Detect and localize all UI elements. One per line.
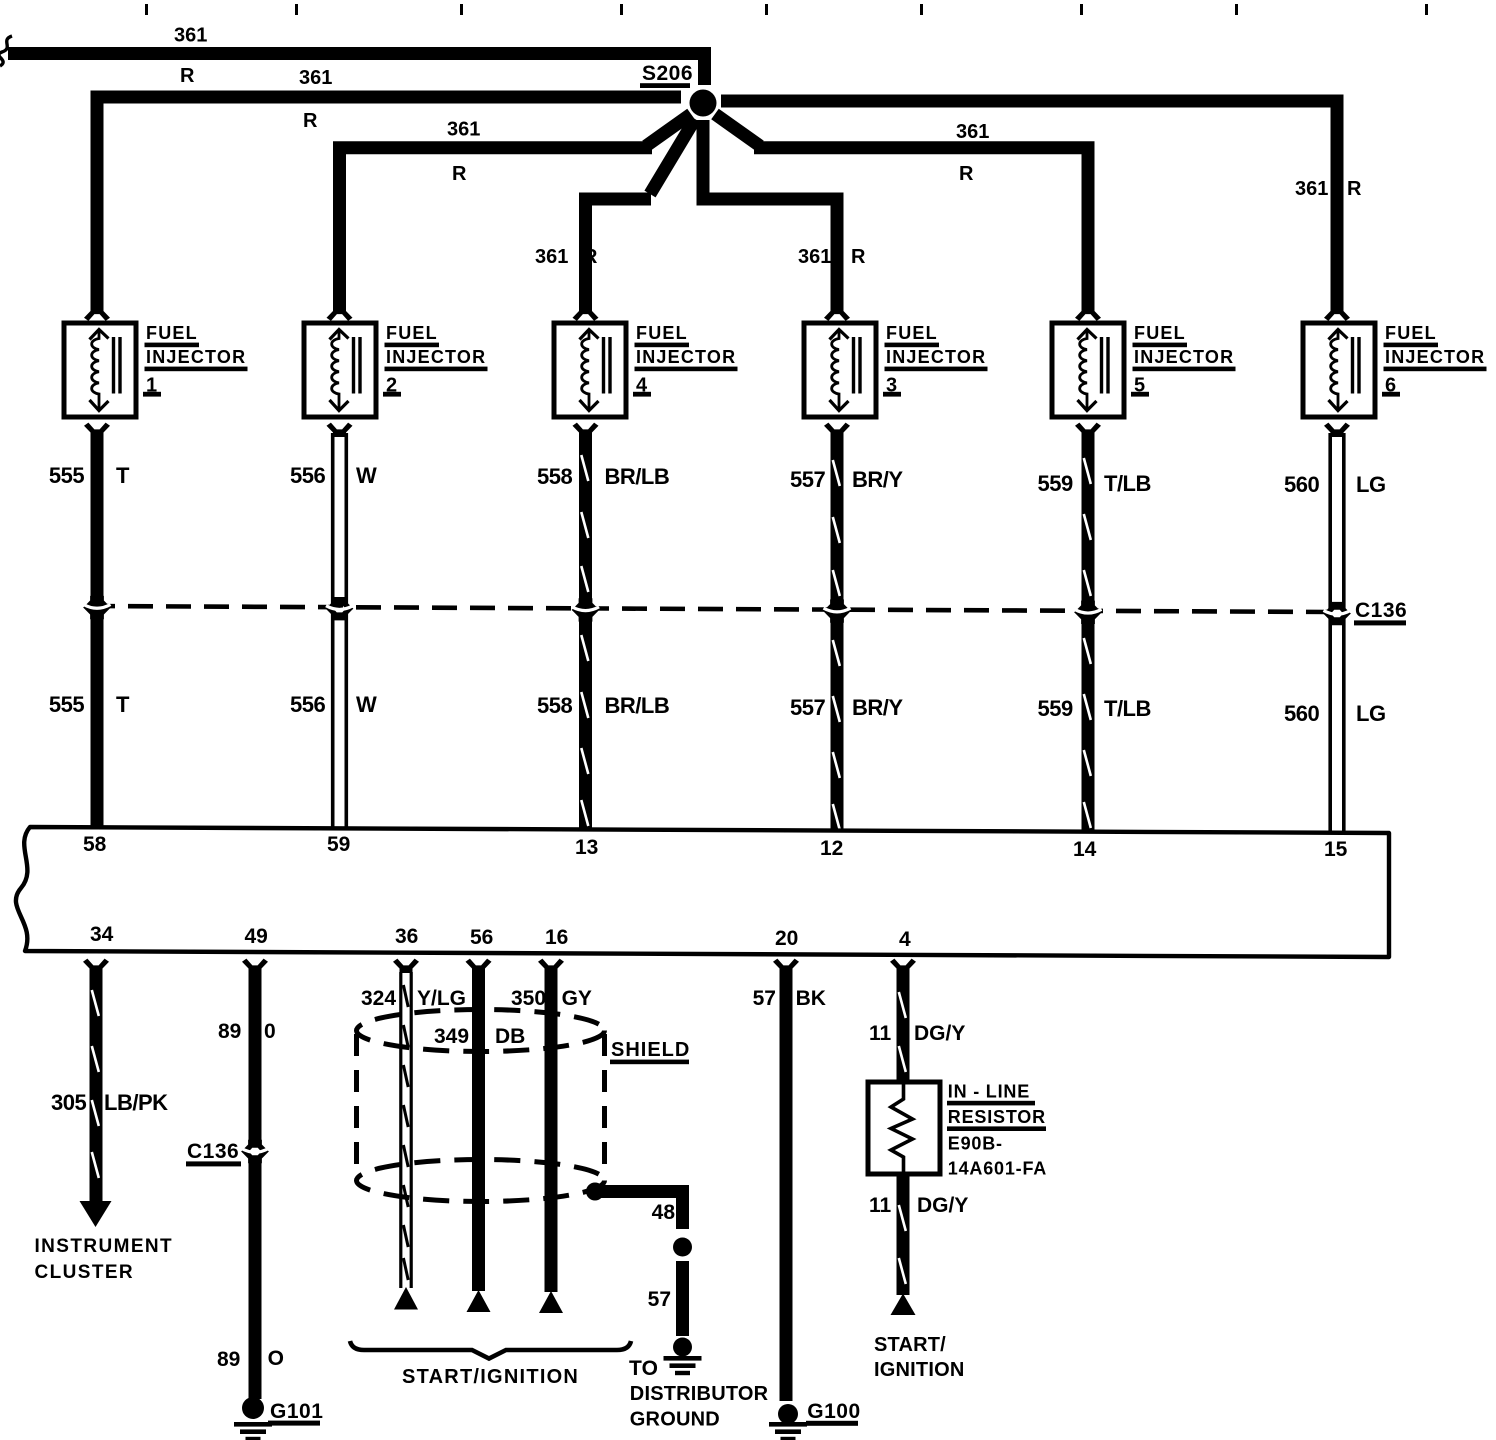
svg-text:361: 361	[299, 67, 332, 89]
fuel injector 4 (coil symbol U4)	[554, 323, 626, 417]
svg-text:16: 16	[545, 926, 568, 949]
brace under START/IGNITION wires	[350, 1341, 631, 1359]
connector bump C136 on wire 89	[241, 1140, 269, 1163]
svg-text:FUEL: FUEL	[1385, 323, 1437, 343]
svg-text:C136: C136	[1355, 599, 1407, 622]
svg-text:4: 4	[899, 928, 911, 951]
svg-text:E90B-: E90B-	[948, 1134, 1003, 1154]
svg-text:361: 361	[174, 25, 207, 47]
svg-text:58: 58	[83, 833, 107, 856]
svg-text:CLUSTER: CLUSTER	[35, 1262, 135, 1283]
svg-text:BK: BK	[796, 987, 826, 1010]
wire 556 W from injector 2 to pin 59	[333, 433, 347, 830]
svg-text:T: T	[116, 463, 130, 488]
wire 557 BR/Y from injector 3 to pin 12	[831, 433, 844, 831]
connector bump C136 on wire 559	[1074, 601, 1102, 624]
svg-text:O: O	[268, 1347, 284, 1370]
svg-text:57: 57	[648, 1288, 671, 1311]
connector fork on wire 57 BK (pin 20)	[773, 959, 799, 973]
svg-text:556: 556	[290, 463, 325, 488]
connector fork at top of fuel injector 4	[573, 307, 599, 321]
svg-text:15: 15	[1324, 838, 1348, 861]
svg-text:13: 13	[575, 836, 598, 859]
svg-text:558: 558	[537, 464, 572, 489]
wire 89 O upper segment	[249, 969, 262, 1145]
svg-text:GY: GY	[562, 987, 592, 1010]
svg-text:IN - LINE: IN - LINE	[948, 1082, 1030, 1102]
svg-text:305: 305	[51, 1090, 86, 1115]
svg-text:INSTRUMENT: INSTRUMENT	[35, 1236, 174, 1257]
svg-text:57: 57	[753, 987, 776, 1010]
svg-text:49: 49	[245, 925, 268, 948]
connector bump C136 on wire 557	[823, 599, 851, 622]
svg-text:557: 557	[790, 695, 825, 720]
svg-text:36: 36	[395, 925, 418, 948]
svg-text:555: 555	[49, 692, 84, 717]
svg-text:14: 14	[1073, 838, 1097, 861]
svg-text:C136: C136	[187, 1140, 239, 1163]
svg-text:11: 11	[869, 1194, 892, 1217]
ground dot distributor	[673, 1338, 692, 1357]
svg-text:48: 48	[652, 1201, 676, 1224]
connector fork on wire 350 (pin 16)	[538, 959, 564, 973]
svg-text:350: 350	[511, 987, 546, 1010]
connector bump C136 on wire 556	[326, 597, 354, 620]
svg-text:557: 557	[790, 467, 825, 492]
stripes on wire 11 upper	[899, 992, 906, 1018]
wire 361 branch to fuel injector 6	[721, 101, 1337, 312]
svg-text:BR/LB: BR/LB	[605, 464, 670, 489]
connector fork below fuel injector 4	[573, 423, 599, 437]
svg-text:FUEL: FUEL	[146, 323, 198, 343]
svg-text:DB: DB	[495, 1025, 525, 1048]
svg-text:34: 34	[90, 923, 114, 946]
svg-text:G101: G101	[270, 1400, 323, 1423]
connector fork below fuel injector 6	[1324, 423, 1350, 437]
torn-end squiggle on wire 361	[0, 36, 12, 66]
svg-text:G100: G100	[807, 1400, 860, 1423]
shield dashed cylinder (bottom ellipse)	[357, 1160, 605, 1202]
connector fork at top of fuel injector 2	[327, 307, 353, 321]
svg-text:INJECTOR: INJECTOR	[146, 347, 246, 367]
svg-text:R: R	[452, 163, 467, 185]
svg-text:W: W	[356, 692, 377, 717]
connector fork below fuel injector 1	[84, 423, 110, 437]
wire 361 diagonal splice leg to injector 5 branch	[715, 114, 760, 146]
underline SHIELD	[610, 1060, 689, 1065]
wire 350 GY	[545, 969, 558, 1292]
connector fork at top of fuel injector 5	[1075, 307, 1101, 321]
svg-text:LB/PK: LB/PK	[104, 1090, 168, 1115]
wire 560 LG from injector 6 to pin 15	[1330, 433, 1344, 833]
arrow terminal wire 324	[394, 1287, 418, 1310]
svg-text:BR/Y: BR/Y	[852, 695, 903, 720]
svg-text:IGNITION: IGNITION	[874, 1359, 965, 1381]
svg-text:DISTRIBUTOR: DISTRIBUTOR	[630, 1383, 769, 1405]
svg-text:TO: TO	[629, 1357, 658, 1380]
svg-text:555: 555	[49, 463, 84, 488]
svg-text:FUEL: FUEL	[1134, 323, 1186, 343]
wire 361 diagonal splice leg to injector 2 branch	[646, 114, 691, 146]
connector bump C136 on wire 558	[572, 598, 600, 621]
underline C136 (wire 89)	[186, 1161, 241, 1166]
stripes on wire 557	[833, 460, 840, 486]
svg-text:FUEL: FUEL	[386, 323, 438, 343]
connector fork at top of fuel injector 6	[1324, 307, 1350, 321]
wire 48 to distributor ground	[595, 1192, 683, 1230]
svg-text:LG: LG	[1356, 472, 1386, 497]
wire 361 diagonal splice leg to injector 4 branch	[650, 119, 695, 194]
connector fork on wire 305 (pin 34)	[83, 959, 109, 973]
ground symbol G100	[769, 1422, 807, 1440]
connector fork below fuel injector 3	[824, 423, 850, 437]
svg-text:556: 556	[290, 692, 325, 717]
underline S206	[640, 83, 690, 88]
svg-text:R: R	[180, 65, 195, 87]
arrow terminal wire 349	[467, 1290, 491, 1312]
fuel injector 2 (coil symbol U2)	[304, 323, 376, 417]
svg-text:361: 361	[956, 121, 989, 143]
svg-text:START/IGNITION: START/IGNITION	[402, 1366, 579, 1388]
svg-text:GROUND: GROUND	[630, 1409, 720, 1431]
arrow terminal wire 350	[539, 1291, 563, 1313]
svg-text:INJECTOR: INJECTOR	[1385, 347, 1485, 367]
svg-text:R: R	[1347, 178, 1362, 200]
svg-text:59: 59	[327, 833, 350, 856]
ground symbol G101	[234, 1422, 272, 1440]
svg-text:89: 89	[217, 1348, 240, 1371]
svg-text:R: R	[303, 110, 318, 132]
wire 57 BK to ground G100	[780, 969, 793, 1401]
arrowhead to instrument cluster	[80, 1201, 112, 1227]
junction dot on distributor ground wire	[673, 1238, 692, 1257]
shield dashed cylinder (right side)	[602, 1034, 607, 1170]
connector fork on wire 11 (pin 4)	[890, 959, 916, 973]
svg-text:FUEL: FUEL	[886, 323, 938, 343]
connector fork on wire 349 (pin 56)	[466, 959, 492, 973]
wire 89 O lower segment	[249, 1157, 262, 1399]
connector fork below fuel injector 2	[327, 423, 353, 437]
underline G100	[806, 1421, 858, 1426]
svg-text:Y/LG: Y/LG	[417, 987, 466, 1010]
stripes on wire 11 lower	[899, 1205, 906, 1231]
in-line resistor box	[868, 1082, 940, 1174]
wire 361 branch to fuel injector 3	[703, 120, 837, 312]
fuel injector 6 (coil symbol U6)	[1303, 323, 1375, 417]
svg-text:349: 349	[434, 1025, 469, 1048]
underline C136 (right)	[1354, 620, 1406, 625]
fuel injector 1 (coil symbol U1)	[64, 323, 136, 417]
wire 57 to distributor ground	[676, 1261, 689, 1336]
svg-text:559: 559	[1038, 696, 1073, 721]
ECM connector strip (long box with torn left edge)	[16, 827, 1389, 957]
svg-text:R: R	[851, 246, 866, 268]
svg-text:INJECTOR: INJECTOR	[886, 347, 986, 367]
svg-text:S206: S206	[642, 62, 693, 85]
svg-text:BR/Y: BR/Y	[852, 467, 903, 492]
wire 361 branch to fuel injector 4	[586, 199, 652, 311]
stripes on wire 305	[92, 990, 99, 1016]
black stripes inside wire 324	[403, 985, 408, 1007]
wire 11 DG/Y upper segment	[897, 969, 910, 1083]
splice S206	[690, 90, 717, 117]
connector bump C136 on wire 555	[83, 596, 111, 619]
svg-text:12: 12	[820, 837, 843, 860]
stripes on wire 558	[581, 455, 588, 481]
stripes on wire 559	[1084, 458, 1091, 484]
svg-text:361: 361	[798, 246, 831, 268]
shield dashed cylinder (top ellipse)	[357, 1010, 605, 1052]
shield dashed cylinder (left side)	[354, 1034, 359, 1178]
svg-text:T: T	[116, 692, 130, 717]
underline IN - LINE	[947, 1101, 1035, 1106]
svg-text:0: 0	[264, 1020, 276, 1043]
wire 349 DB	[472, 969, 485, 1291]
svg-text:56: 56	[470, 926, 493, 949]
wire 324 Y/LG	[401, 972, 411, 1288]
svg-text:560: 560	[1284, 701, 1319, 726]
wire 361 top feed from left	[8, 54, 705, 86]
underline RESISTOR	[947, 1126, 1046, 1131]
svg-text:START/: START/	[874, 1334, 946, 1356]
resistor zigzag element	[891, 1082, 913, 1174]
dashed connector line C136	[90, 606, 1332, 612]
ground symbol distributor	[664, 1356, 702, 1375]
wire 559 T/LB from injector 5 to pin 14	[1082, 433, 1095, 832]
svg-text:RESISTOR: RESISTOR	[948, 1107, 1046, 1127]
svg-text:558: 558	[537, 693, 572, 718]
fuel injector 5 (coil symbol U5)	[1052, 323, 1124, 417]
underline G101	[268, 1421, 320, 1426]
wire 361 branch to fuel injector 5	[754, 148, 1088, 312]
wire 361 branch to fuel injector 1	[97, 97, 681, 311]
svg-text:361: 361	[1295, 178, 1328, 200]
svg-text:R: R	[583, 246, 598, 268]
svg-text:DG/Y: DG/Y	[914, 1022, 965, 1045]
svg-text:INJECTOR: INJECTOR	[636, 347, 736, 367]
wire 11 DG/Y lower segment	[897, 1174, 910, 1295]
svg-text:11: 11	[869, 1022, 892, 1045]
svg-text:FUEL: FUEL	[636, 323, 688, 343]
svg-text:INJECTOR: INJECTOR	[386, 347, 486, 367]
fuel injector 3 (coil symbol U3)	[804, 323, 876, 417]
svg-text:560: 560	[1284, 472, 1319, 497]
svg-text:20: 20	[775, 927, 798, 950]
svg-text:T/LB: T/LB	[1104, 696, 1151, 721]
connector fork on wire 89 (pin 49)	[242, 959, 268, 973]
svg-text:LG: LG	[1356, 701, 1386, 726]
wire 555 T from injector 1 to pin 58	[91, 433, 104, 830]
svg-text:T/LB: T/LB	[1104, 471, 1151, 496]
svg-text:W: W	[356, 463, 377, 488]
connector fork at top of fuel injector 1	[84, 307, 110, 321]
svg-text:INJECTOR: INJECTOR	[1134, 347, 1234, 367]
connector fork at top of fuel injector 3	[824, 307, 850, 321]
svg-text:14A601-FA: 14A601-FA	[948, 1159, 1047, 1179]
connector bump C136 on wire 560	[1323, 602, 1351, 625]
connector fork below fuel injector 5	[1075, 423, 1101, 437]
svg-text:DG/Y: DG/Y	[917, 1194, 968, 1217]
wire 305 LB/PK to instrument cluster	[90, 969, 103, 1203]
svg-text:361: 361	[447, 119, 480, 141]
wire 558 BR/LB from injector 4 to pin 13	[579, 433, 592, 831]
connector fork on wire 324 (pin 36)	[393, 959, 419, 973]
svg-text:324: 324	[361, 987, 396, 1010]
svg-text:SHIELD: SHIELD	[611, 1039, 690, 1061]
svg-text:89: 89	[218, 1020, 241, 1043]
arrow terminal wire 11 (start/ignition)	[891, 1294, 916, 1316]
wire 361 branch to fuel injector 2	[340, 148, 653, 311]
svg-text:361: 361	[535, 246, 568, 268]
ground dot G100	[778, 1404, 798, 1424]
svg-text:BR/LB: BR/LB	[605, 693, 670, 718]
svg-text:R: R	[959, 163, 974, 185]
shield drain junction dot	[586, 1183, 604, 1201]
svg-text:559: 559	[1038, 471, 1073, 496]
ground dot G101	[242, 1397, 264, 1419]
